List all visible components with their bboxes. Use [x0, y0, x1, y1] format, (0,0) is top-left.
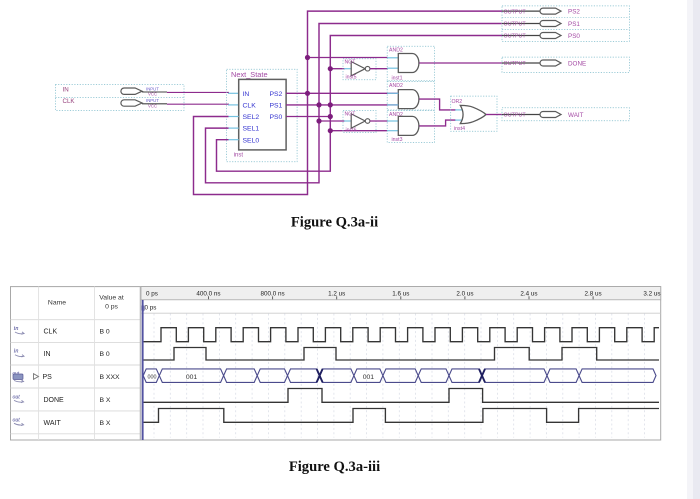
svg-text:Figure Q.3a-ii: Figure Q.3a-ii [291, 214, 378, 230]
svg-text:IN: IN [63, 86, 69, 93]
svg-text:AND2: AND2 [389, 83, 403, 89]
node J4 [328, 102, 333, 107]
wire PS0 branch to AND2 inst3 [330, 130, 387, 132]
svg-text:PS1: PS1 [269, 103, 282, 110]
svg-text:Value at: Value at [99, 295, 124, 302]
svg-text:Next_State: Next_State [231, 70, 268, 79]
svg-text:0 ps: 0 ps [145, 305, 157, 312]
signal row CLK [14, 325, 110, 336]
wire AND2 inst1 to DONE pin [419, 62, 502, 64]
svg-text:3.2 us: 3.2 us [643, 290, 660, 297]
svg-text:OUTPUT: OUTPUT [504, 34, 527, 40]
svg-text:PS2: PS2 [269, 91, 282, 98]
not-gate NOT inst5 box [343, 59, 376, 80]
Next_State input stubs [229, 117, 239, 140]
waveform cursor marker [141, 306, 145, 313]
waveform PS bus trace [143, 369, 656, 383]
output pin box WAIT [502, 108, 629, 121]
signal row IN [14, 348, 110, 359]
output pin DONE [502, 60, 586, 67]
svg-text:PS0: PS0 [269, 114, 282, 121]
svg-text:DONE: DONE [568, 60, 586, 67]
svg-text:DONE: DONE [44, 397, 65, 404]
output pin group box PS2 PS1 PS0 [502, 6, 629, 42]
output pin PS2 [502, 8, 580, 15]
waveform ruler strip [141, 287, 661, 300]
svg-text:B X: B X [100, 420, 111, 427]
svg-text:OUTPUT: OUTPUT [504, 113, 527, 119]
waveform WAIT trace [143, 409, 659, 423]
svg-text:SEL1: SEL1 [243, 126, 260, 133]
svg-text:inst4: inst4 [454, 126, 465, 132]
node J5 [328, 66, 333, 71]
svg-text:in: in [14, 348, 19, 355]
waveform DONE trace [143, 389, 659, 403]
input pin group box [55, 85, 184, 111]
svg-text:WAIT: WAIT [568, 112, 584, 119]
svg-text:001: 001 [363, 374, 375, 381]
node J6 [328, 114, 333, 119]
svg-text:out: out [13, 417, 21, 423]
node J2 [305, 91, 310, 96]
signal row WAIT [13, 417, 111, 427]
svg-text:PS: PS [43, 374, 53, 381]
svg-text:OUTPUT: OUTPUT [504, 22, 527, 28]
node J7 [316, 118, 321, 123]
input pin IN symbol [121, 86, 159, 96]
svg-text:SEL0: SEL0 [243, 137, 260, 144]
svg-text:inst5: inst5 [346, 74, 357, 80]
svg-text:001: 001 [186, 374, 198, 381]
not-gate NOT inst6 [351, 114, 370, 128]
and-gate AND2 inst3 [398, 116, 419, 135]
node J1 [305, 55, 310, 60]
waveform PS bold transition 2 [479, 369, 485, 383]
or-gate OR2 inst4 box [451, 96, 497, 131]
svg-text:B 0: B 0 [100, 329, 110, 336]
output pin PS0 [502, 33, 580, 40]
wire PS1 branch to NOT inst6 [319, 120, 345, 122]
waveform grid [154, 314, 645, 438]
svg-text:CLK: CLK [243, 103, 257, 110]
svg-text:IN: IN [44, 351, 51, 358]
signal row DONE [13, 394, 111, 404]
name panel separators [11, 287, 141, 440]
svg-text:B X: B X [100, 397, 111, 404]
svg-text:inst6: inst6 [346, 128, 357, 134]
and-gate AND2 inst2 [398, 90, 419, 109]
svg-text:000: 000 [148, 374, 157, 380]
svg-text:B 0: B 0 [100, 351, 110, 358]
wire NOT inst6 to AND2 inst3 [370, 120, 388, 122]
svg-text:SEL2: SEL2 [243, 114, 260, 121]
waveform cursor line [142, 300, 144, 440]
svg-text:Figure Q.3a-iii: Figure Q.3a-iii [289, 459, 380, 475]
wire PS1 net [286, 104, 398, 106]
waveform ruler labels [146, 290, 661, 299]
wire PS0 net [286, 116, 330, 118]
wire NOT inst5 to AND2 inst1 [370, 68, 388, 70]
svg-text:OUTPUT: OUTPUT [504, 61, 527, 67]
or-gate OR2 inst4 input stubs [455, 109, 464, 111]
and-gate AND2 inst3 box [387, 111, 434, 143]
svg-text:CLK: CLK [63, 98, 76, 105]
not-gate NOT inst6 box [343, 111, 376, 133]
wire PS2 net [286, 92, 398, 94]
svg-text:PS1: PS1 [568, 21, 580, 28]
signal row PS [13, 371, 120, 383]
svg-text:AND2: AND2 [389, 48, 403, 54]
svg-text:inst1: inst1 [392, 76, 403, 82]
Next_State block U inst [239, 79, 286, 149]
svg-text:WAIT: WAIT [44, 420, 62, 427]
Next_State block selection box [227, 69, 298, 162]
waveform PS bold transition 1 [317, 369, 323, 383]
svg-text:CLK: CLK [44, 329, 58, 336]
output pin PS1 [502, 21, 580, 28]
wire PS2 branch to AND2 inst1 [308, 57, 388, 59]
and-gate AND2 inst1 box [387, 46, 434, 81]
svg-text:NOT: NOT [345, 59, 357, 65]
svg-text:inst3: inst3 [392, 137, 403, 143]
and-gate inst2 input stubs [387, 92, 398, 94]
svg-text:0 ps: 0 ps [105, 304, 118, 311]
waveform CLK trace [143, 328, 659, 342]
input pin CLK symbol [121, 98, 159, 108]
waveform PS bus labels [148, 374, 375, 381]
svg-text:OR2: OR2 [452, 99, 463, 105]
wire PS0 branch to NOT inst5 [330, 68, 345, 70]
wire vertical PS0 [217, 36, 503, 172]
svg-text:IN: IN [243, 91, 250, 98]
node J8 [328, 128, 333, 133]
and-gate AND2 inst2 box [387, 82, 434, 111]
wire IN pin to Next_State [142, 91, 167, 93]
waveform IN trace [143, 348, 659, 361]
not-gate NOT inst5 [351, 62, 370, 76]
svg-text:NOT: NOT [345, 112, 357, 118]
page right margin strip [687, 0, 693, 499]
svg-text:B XXX: B XXX [100, 374, 120, 381]
svg-text:OUTPUT: OUTPUT [504, 9, 527, 15]
svg-text:PS0: PS0 [568, 33, 580, 40]
or-gate OR2 inst4 [460, 105, 486, 123]
Next_State port labels [243, 91, 283, 144]
svg-text:inst: inst [234, 153, 244, 159]
svg-text:in: in [14, 325, 19, 332]
wire AND2 inst2 to OR2 inst4 [419, 99, 456, 110]
svg-text:out: out [13, 394, 21, 400]
waveform panel frame [11, 287, 661, 440]
svg-text:PS2: PS2 [568, 9, 580, 16]
wire OR2 inst4 to WAIT pin [486, 114, 502, 116]
svg-text:0 ps: 0 ps [146, 290, 158, 297]
and-gate AND2 inst1 [398, 54, 419, 73]
svg-text:Name: Name [48, 300, 66, 307]
output pin WAIT [502, 112, 584, 119]
node J3 [316, 102, 321, 107]
output pin box DONE [502, 57, 629, 72]
wire vertical PS1 [206, 24, 503, 183]
wire vertical PS2 [194, 11, 503, 194]
wire AND2 inst3 to OR2 inst4 [419, 120, 456, 126]
wire CLK pin to Next_State [142, 103, 167, 105]
